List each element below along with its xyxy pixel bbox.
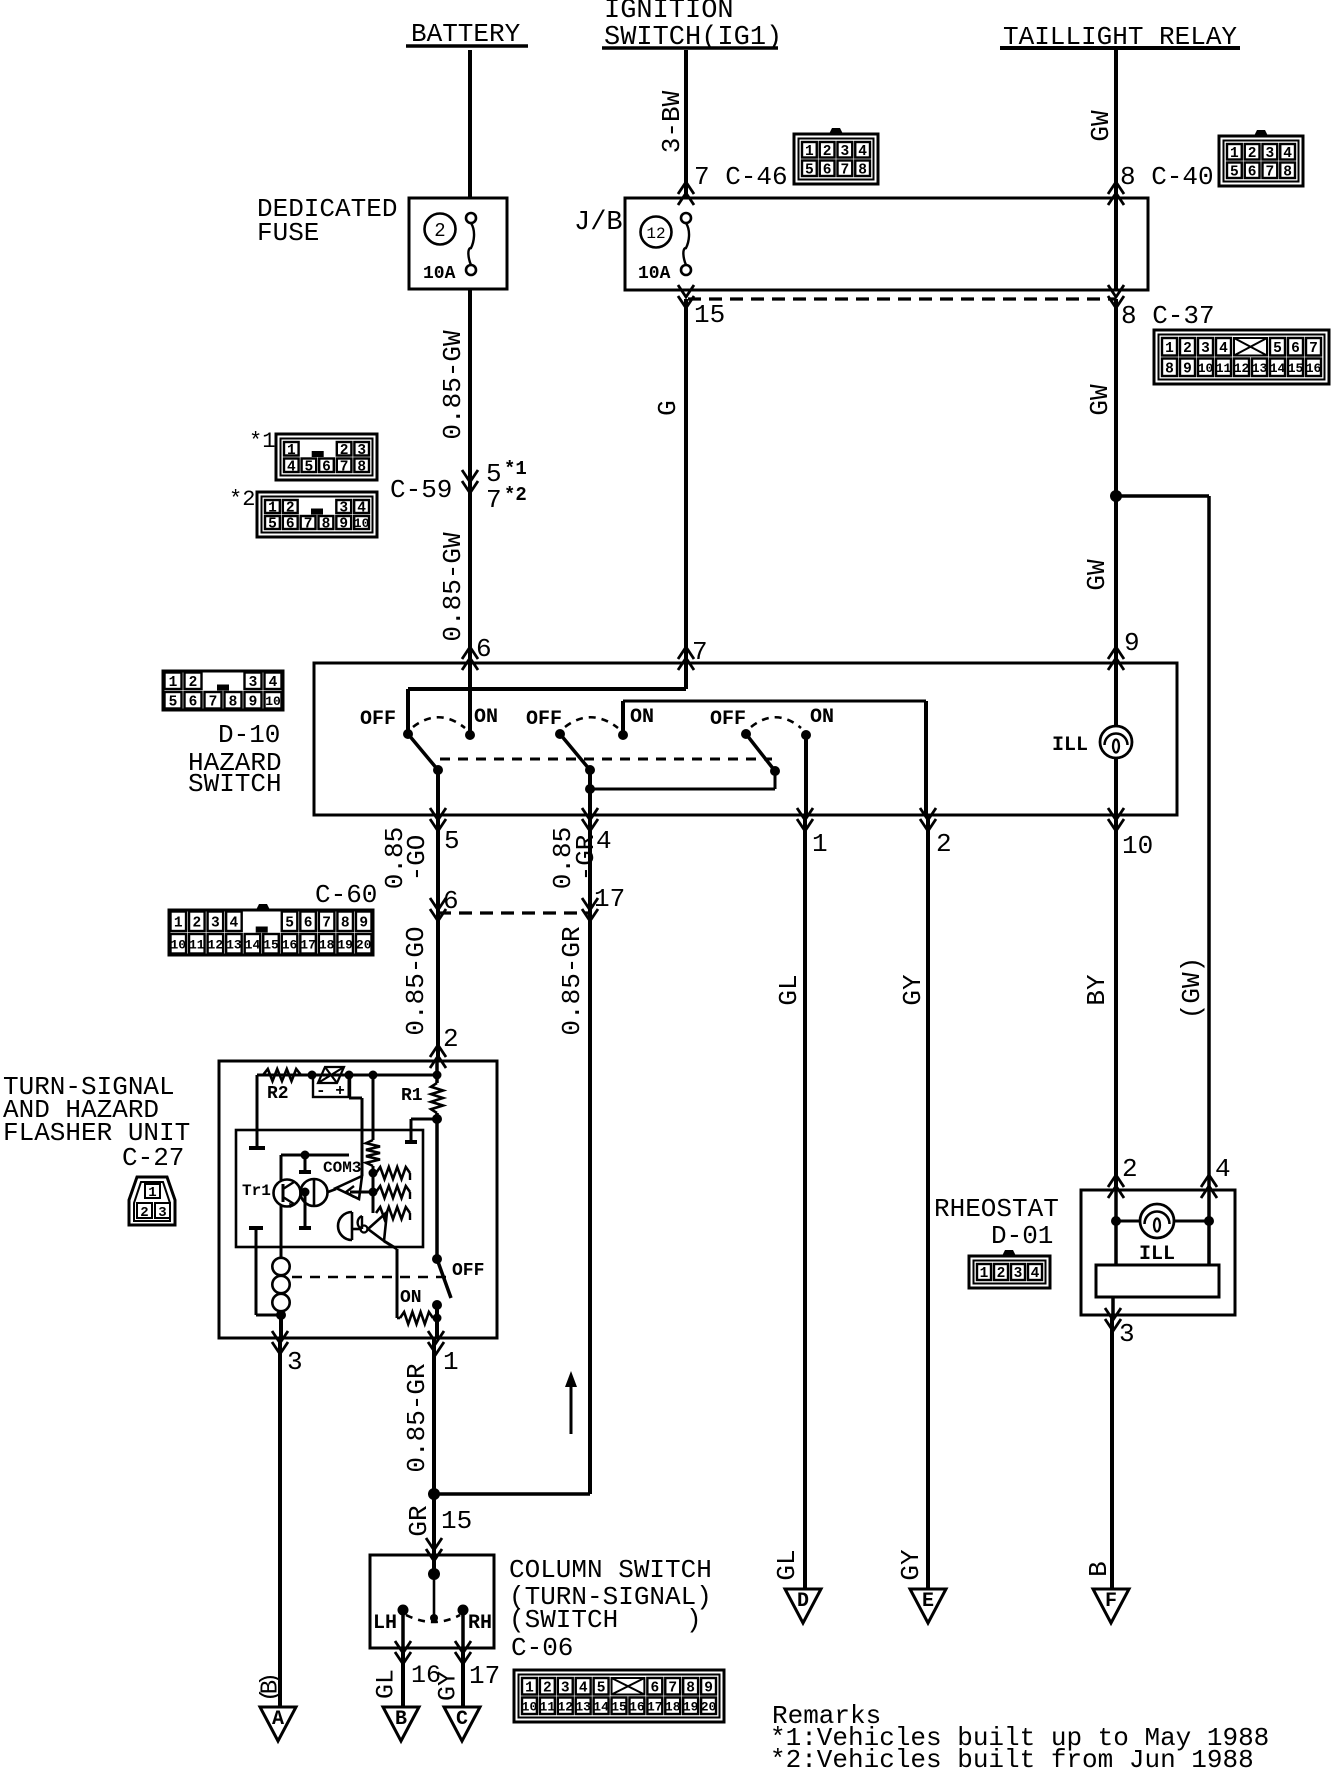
wire label GY bottom: [434, 1671, 463, 1701]
svg-text:*2: *2: [504, 484, 527, 506]
node BATTERY title: [406, 19, 528, 49]
svg-text:2: 2: [823, 144, 832, 160]
wire LH down: [401, 1610, 405, 1648]
wire hazard pin9 to lamp: [1114, 663, 1118, 726]
wire label GL mid: [774, 974, 804, 1005]
switch SW3 OFF label: [710, 708, 746, 731]
svg-text:7: 7: [304, 517, 313, 533]
arrow out LH: [395, 1641, 441, 1690]
svg-text:5: 5: [1230, 164, 1239, 180]
wire label 0.85-GW lower: [438, 532, 468, 642]
svg-text:3: 3: [339, 501, 348, 517]
svg-text:8: 8: [858, 162, 867, 178]
wire hazard pin6 internal: [468, 663, 472, 735]
svg-text:9: 9: [339, 517, 348, 533]
pin label rheostat 2: [1122, 1154, 1138, 1184]
harness arrow B: [383, 1707, 419, 1741]
pin label 7 C-46: [694, 162, 788, 192]
svg-text:4: 4: [858, 144, 867, 160]
svg-text:7: 7: [486, 485, 502, 515]
svg-text:ON: ON: [630, 706, 654, 729]
svg-text:C-27: C-27: [122, 1143, 184, 1173]
arrow into hazard pin9: [1108, 628, 1140, 670]
svg-text:12: 12: [208, 937, 224, 952]
wire comparator input: [350, 1191, 373, 1194]
svg-text:5: 5: [444, 826, 460, 856]
svg-text:6: 6: [189, 694, 198, 710]
wire label B end: [1084, 1561, 1114, 1577]
svg-text:4: 4: [230, 915, 239, 931]
svg-text:COLUMN SWITCH: COLUMN SWITCH: [509, 1555, 712, 1585]
pin label 8 C-40: [1120, 162, 1214, 192]
wire SW3 ON to pin1: [804, 735, 808, 815]
arrow out of J/B pin15: [678, 285, 694, 308]
wire GL hazard1 to D: [803, 815, 807, 1602]
svg-text:3: 3: [1266, 146, 1275, 162]
svg-text:6: 6: [322, 459, 331, 475]
svg-text:14: 14: [1270, 361, 1286, 376]
wire label GW mid2: [1082, 559, 1112, 591]
wire coil to pin3: [279, 1315, 283, 1338]
wire SW1 common to pin5: [436, 770, 440, 815]
svg-text:OFF: OFF: [452, 1261, 484, 1281]
svg-text:13: 13: [1252, 361, 1268, 376]
svg-text:J/B: J/B: [574, 208, 623, 238]
svg-text:15: 15: [1288, 361, 1304, 376]
svg-text:3: 3: [561, 1680, 570, 1696]
svg-text:4: 4: [287, 459, 296, 475]
J/B circle 12: [641, 217, 672, 248]
svg-text:14: 14: [245, 937, 261, 952]
svg-text:5: 5: [285, 915, 294, 931]
svg-text:1: 1: [174, 915, 183, 931]
svg-text:D-10: D-10: [218, 720, 280, 750]
wire inside J/B taillight: [1114, 198, 1118, 290]
svg-text:C: C: [456, 1708, 468, 1731]
svg-text:B: B: [395, 1708, 407, 1731]
svg-text:10: 10: [354, 516, 370, 531]
column switch LH label: [373, 1612, 397, 1635]
svg-text:ON: ON: [810, 706, 834, 729]
arrow into rheostat pin4: [1201, 1175, 1217, 1198]
svg-text:GW: GW: [1082, 559, 1112, 591]
direction arrow up: [565, 1371, 577, 1434]
wire RH to C: [461, 1648, 465, 1720]
svg-text:*2:Vehicles built from Jun 198: *2:Vehicles built from Jun 1988: [770, 1745, 1254, 1768]
switch SW3 ON label: [810, 706, 834, 729]
connector D-01: [969, 1250, 1050, 1288]
transistor Tr1: [274, 1155, 301, 1253]
connector C-59 label: [390, 475, 452, 505]
pin label rheostat 4: [1215, 1154, 1231, 1184]
remarks text: [770, 1701, 1269, 1768]
svg-text:LH: LH: [373, 1612, 397, 1635]
node TAILLIGHT RELAY title: [1000, 22, 1240, 52]
svg-text:7: 7: [209, 694, 218, 710]
wire hazard pin7 internal: [408, 663, 686, 734]
svg-text:2: 2: [1183, 341, 1192, 357]
svg-text:3: 3: [1014, 1266, 1023, 1282]
svg-text:-GR: -GR: [571, 835, 601, 882]
svg-text:0.85-GO: 0.85-GO: [401, 926, 431, 1035]
connector *1: [249, 429, 377, 480]
svg-text:10A: 10A: [638, 264, 671, 284]
svg-text:11: 11: [189, 937, 205, 952]
svg-text:6: 6: [304, 915, 313, 931]
pin label 15: [694, 300, 725, 330]
wire hazard5 to C-60: [436, 815, 440, 913]
svg-text:(GW): (GW): [1177, 957, 1207, 1019]
svg-text:3: 3: [357, 443, 366, 459]
wire ignition to J/B: [684, 50, 688, 199]
wire label BY mid: [1082, 974, 1112, 1006]
svg-text:7: 7: [1266, 164, 1275, 180]
svg-text:1: 1: [525, 1680, 534, 1696]
wire BY hazard10 to rheostat: [1114, 815, 1118, 1191]
svg-text:6: 6: [650, 1680, 659, 1696]
harness arrow C: [444, 1707, 480, 1741]
svg-text:3: 3: [841, 144, 850, 160]
rheostat internal wires: [1111, 1190, 1214, 1265]
svg-text:16: 16: [1306, 361, 1322, 376]
svg-text:C-60: C-60: [315, 880, 377, 910]
rheostat box: [1081, 1190, 1235, 1315]
svg-text:GW: GW: [1086, 110, 1116, 142]
wire C-59 to hazard: [468, 476, 472, 664]
svg-text:SWITCH: SWITCH: [188, 769, 282, 799]
svg-text:7: 7: [841, 162, 850, 178]
svg-text:8: 8: [1165, 361, 1174, 377]
svg-text:Tr1: Tr1: [242, 1182, 271, 1200]
svg-text:1: 1: [268, 501, 277, 517]
switch SW1: [403, 717, 475, 775]
wire inverter out: [384, 1241, 397, 1318]
svg-text:12: 12: [1234, 361, 1250, 376]
wire coil link: [249, 1228, 286, 1320]
arrow out rheostat pin3: [1105, 1308, 1135, 1349]
pin label 15 column: [441, 1506, 472, 1536]
svg-text:6: 6: [1291, 341, 1300, 357]
svg-text:): ): [686, 1605, 702, 1635]
wire GR long down: [588, 913, 592, 1494]
resistor Ra: [376, 1167, 410, 1180]
svg-text:5: 5: [268, 517, 277, 533]
svg-text:3: 3: [158, 1205, 166, 1221]
flasher switch resistor: [397, 1312, 442, 1324]
flasher switch ON label: [400, 1288, 422, 1308]
svg-text:*1: *1: [504, 458, 527, 480]
svg-text:2: 2: [140, 1205, 148, 1221]
resistor Rb: [376, 1186, 410, 1199]
node junction GW: [1110, 490, 1122, 502]
wire lamp to pin10: [1114, 758, 1118, 815]
svg-text:12: 12: [557, 1699, 573, 1714]
wire label 0.85-GR cols: [548, 827, 601, 889]
wire G ignition to hazard: [684, 299, 688, 664]
wire diode to IC: [349, 1075, 362, 1176]
arrow out hazard pin4: [582, 808, 612, 856]
flasher left drop pin: [249, 1075, 265, 1148]
arrow C-60 pin6: [430, 886, 459, 921]
svg-text:G: G: [653, 400, 683, 416]
switch SW1 ON label: [474, 706, 498, 729]
svg-text:7: 7: [1309, 341, 1318, 357]
connector C-06: [514, 1670, 724, 1722]
harness arrow F: [1093, 1589, 1129, 1623]
svg-text:0.85-GR: 0.85-GR: [402, 1363, 432, 1472]
svg-text:9: 9: [1124, 628, 1140, 658]
svg-text:ILL: ILL: [1139, 1243, 1175, 1266]
wire to IC pin top right: [405, 1119, 437, 1142]
svg-text:(B): (B): [258, 1672, 285, 1702]
wire label 0.85-GW upper: [438, 330, 468, 440]
svg-text:15: 15: [611, 1699, 627, 1714]
svg-text:4: 4: [269, 675, 278, 691]
svg-text:0.85-GW: 0.85-GW: [438, 330, 468, 440]
svg-text:14: 14: [593, 1699, 609, 1714]
svg-text:GL: GL: [774, 974, 804, 1005]
wire flasher1 to junction: [432, 1338, 436, 1556]
svg-text:9: 9: [704, 1680, 713, 1696]
arrow into J/B pin8: [1108, 182, 1124, 205]
svg-text:2: 2: [936, 829, 952, 859]
svg-text:8: 8: [357, 459, 366, 475]
svg-text:10: 10: [170, 937, 186, 952]
arrow into hazard pin7: [678, 637, 708, 670]
column switch RH label: [468, 1612, 492, 1635]
svg-text:20: 20: [701, 1699, 717, 1714]
inverter triangle U2: [352, 1212, 387, 1241]
svg-text:F: F: [1105, 1590, 1117, 1613]
svg-text:16: 16: [282, 937, 298, 952]
svg-text:4: 4: [1031, 1266, 1040, 1282]
svg-text:2: 2: [1122, 1154, 1138, 1184]
wire label (B): [258, 1672, 285, 1702]
svg-text:15: 15: [694, 300, 725, 330]
svg-text:20: 20: [356, 937, 372, 952]
svg-text:13: 13: [226, 937, 242, 952]
svg-text:15: 15: [441, 1506, 472, 1536]
svg-text:18: 18: [319, 937, 335, 952]
svg-text:10: 10: [1198, 361, 1214, 376]
svg-text:13: 13: [575, 1699, 591, 1714]
svg-text:3: 3: [1201, 341, 1210, 357]
resistor Rv vertical: [366, 1140, 380, 1166]
arrow out flasher pin1: [428, 1331, 459, 1377]
hazard switch box: [314, 663, 1177, 815]
arrow out RH: [455, 1641, 500, 1691]
svg-text:GY: GY: [898, 974, 928, 1006]
rheostat resistor box: [1096, 1265, 1219, 1297]
svg-text:R1: R1: [401, 1086, 423, 1106]
wire rail to resistor column: [372, 1075, 375, 1140]
wire C-60 to flasher: [436, 913, 440, 1062]
svg-text:9: 9: [359, 915, 368, 931]
arrow into flasher pin2: [430, 1024, 459, 1068]
fuse circle 2: [425, 214, 456, 245]
svg-text:4: 4: [579, 1680, 588, 1696]
column switch labels: [509, 1555, 712, 1663]
wire rheostat out: [1111, 1297, 1115, 1315]
wire resistor column: [369, 1166, 378, 1213]
wire label GL bottom: [372, 1669, 401, 1699]
svg-text:A: A: [272, 1708, 284, 1731]
svg-text:1: 1: [443, 1347, 459, 1377]
connector C-37: [1154, 330, 1329, 384]
arrow out flasher pin3: [272, 1331, 303, 1377]
arrow into column switch: [426, 1538, 442, 1561]
fuse element F12: [681, 213, 691, 275]
hazard ILL lamp: [1052, 726, 1132, 758]
wire LH to B: [401, 1648, 405, 1720]
wire RH down: [461, 1610, 465, 1648]
rail junction dots: [308, 1071, 442, 1080]
svg-text:5: 5: [1273, 341, 1282, 357]
svg-text:5: 5: [305, 459, 314, 475]
svg-text:18: 18: [665, 1699, 681, 1714]
flasher switch: [432, 1254, 451, 1310]
switch SW3: [741, 717, 811, 776]
wire label 0.85-GR lower: [402, 1363, 432, 1472]
svg-text:8: 8: [1283, 164, 1292, 180]
svg-text:C-59: C-59: [390, 475, 452, 505]
connector C-46: [794, 128, 878, 184]
pin label 5*1: [486, 458, 527, 489]
rheostat lamp ILL: [1139, 1204, 1175, 1266]
gate G1 COM3: [301, 1179, 337, 1206]
arrow out of J/B pin8 C-37: [1108, 285, 1124, 308]
wire label GL end: [772, 1549, 802, 1580]
node IGNITION SWITCH(IG1) title: [602, 0, 782, 53]
svg-text:4: 4: [1283, 146, 1292, 162]
svg-text:7 C-46: 7 C-46: [694, 162, 788, 192]
arrow out hazard pin10: [1108, 808, 1153, 861]
switch SW2: [555, 717, 628, 775]
svg-text:GY: GY: [434, 1671, 463, 1701]
svg-text:*2: *2: [229, 487, 255, 512]
svg-text:B: B: [1084, 1561, 1114, 1577]
svg-text:GR: GR: [404, 1505, 434, 1536]
wire label GW top: [1086, 110, 1116, 142]
svg-text:8 C-40: 8 C-40: [1120, 162, 1214, 192]
arrow into J/B pin7: [678, 182, 694, 205]
pin label 7*2: [486, 484, 527, 515]
IC internal rail: [281, 1151, 349, 1160]
svg-text:8: 8: [229, 694, 238, 710]
gate G1 label COM3: [323, 1159, 361, 1177]
svg-text:17: 17: [300, 937, 316, 952]
svg-text:17: 17: [594, 884, 625, 914]
hazard mechanical link dashed: [440, 758, 772, 761]
resistor R2: [263, 1069, 301, 1104]
wire label 0.85-GO cols: [380, 827, 432, 889]
svg-text:C-06: C-06: [511, 1633, 573, 1663]
comparator triangle U1: [336, 1176, 362, 1199]
switch SW1 OFF label: [360, 708, 396, 731]
svg-text:17: 17: [647, 1699, 663, 1714]
svg-text:5: 5: [597, 1680, 606, 1696]
wire GY hazard2 to E: [926, 815, 930, 1602]
svg-text:ILL: ILL: [1052, 734, 1088, 757]
svg-text:RHEOSTAT: RHEOSTAT: [934, 1194, 1059, 1224]
transistor Tr1 label: [242, 1182, 271, 1200]
flasher switch OFF label: [452, 1261, 484, 1281]
wire label GR: [404, 1505, 434, 1536]
svg-text:17: 17: [469, 1661, 500, 1691]
svg-text:2: 2: [434, 220, 445, 242]
resistor R1: [401, 1083, 443, 1113]
wire GR branch: [434, 1492, 590, 1496]
wire branch GW to rheostat: [1116, 496, 1209, 1191]
IC box: [236, 1130, 423, 1247]
svg-text:2: 2: [340, 443, 349, 459]
svg-text:3-BW: 3-BW: [657, 90, 687, 153]
wire label GY end: [896, 1549, 926, 1581]
svg-text:6: 6: [286, 517, 295, 533]
svg-text:1: 1: [287, 443, 296, 459]
svg-text:1: 1: [805, 144, 814, 160]
wire flasher3 to A: [278, 1338, 282, 1720]
column switch internal: [398, 1555, 469, 1622]
wire hazard4 to C-60: [588, 815, 592, 913]
J/B label: [574, 208, 623, 238]
svg-text:11: 11: [1216, 361, 1232, 376]
svg-text:19: 19: [683, 1699, 699, 1714]
svg-text:5: 5: [169, 694, 178, 710]
svg-text:2: 2: [543, 1680, 552, 1696]
svg-text:-GO: -GO: [402, 835, 432, 882]
svg-text:1: 1: [169, 675, 178, 691]
wire label GW mid1: [1085, 384, 1115, 416]
svg-text:BY: BY: [1082, 974, 1112, 1006]
svg-text:OFF: OFF: [710, 708, 746, 731]
svg-text:D: D: [797, 1590, 809, 1613]
svg-text:4: 4: [1219, 341, 1228, 357]
connector D-10: [163, 671, 283, 710]
svg-text:COM3: COM3: [323, 1159, 361, 1177]
svg-text:10: 10: [522, 1699, 538, 1714]
svg-text:7: 7: [322, 915, 331, 931]
junction block box: [625, 198, 1148, 290]
wire label G: [653, 400, 683, 416]
svg-text:4: 4: [357, 501, 366, 517]
svg-text:ON: ON: [474, 706, 498, 729]
svg-text:3: 3: [249, 675, 258, 691]
svg-text:0.85-GR: 0.85-GR: [557, 926, 587, 1035]
svg-text:8: 8: [322, 517, 331, 533]
wire battery to dedicated fuse: [468, 50, 472, 199]
wire switch to pin1: [435, 1305, 439, 1338]
svg-text:E: E: [922, 1590, 934, 1613]
arrow out hazard pin1: [797, 808, 828, 859]
svg-text:2: 2: [189, 675, 198, 691]
svg-text:6: 6: [1248, 164, 1257, 180]
pin label 8 C-37: [1121, 301, 1215, 331]
svg-text:6: 6: [476, 634, 492, 664]
svg-text:GL: GL: [772, 1549, 802, 1580]
svg-text:8 C-37: 8 C-37: [1121, 301, 1215, 331]
svg-text:2: 2: [443, 1024, 459, 1054]
wire R1 to switch: [432, 1061, 442, 1259]
wire rheostat to F: [1110, 1315, 1114, 1602]
svg-text:3: 3: [211, 915, 220, 931]
svg-text:4: 4: [1215, 1154, 1231, 1184]
svg-text:GW: GW: [1085, 384, 1115, 416]
svg-text:9: 9: [1183, 361, 1192, 377]
arrow out hazard pin2: [920, 808, 952, 859]
svg-text:ON: ON: [400, 1288, 422, 1308]
svg-text:1: 1: [1230, 146, 1239, 162]
